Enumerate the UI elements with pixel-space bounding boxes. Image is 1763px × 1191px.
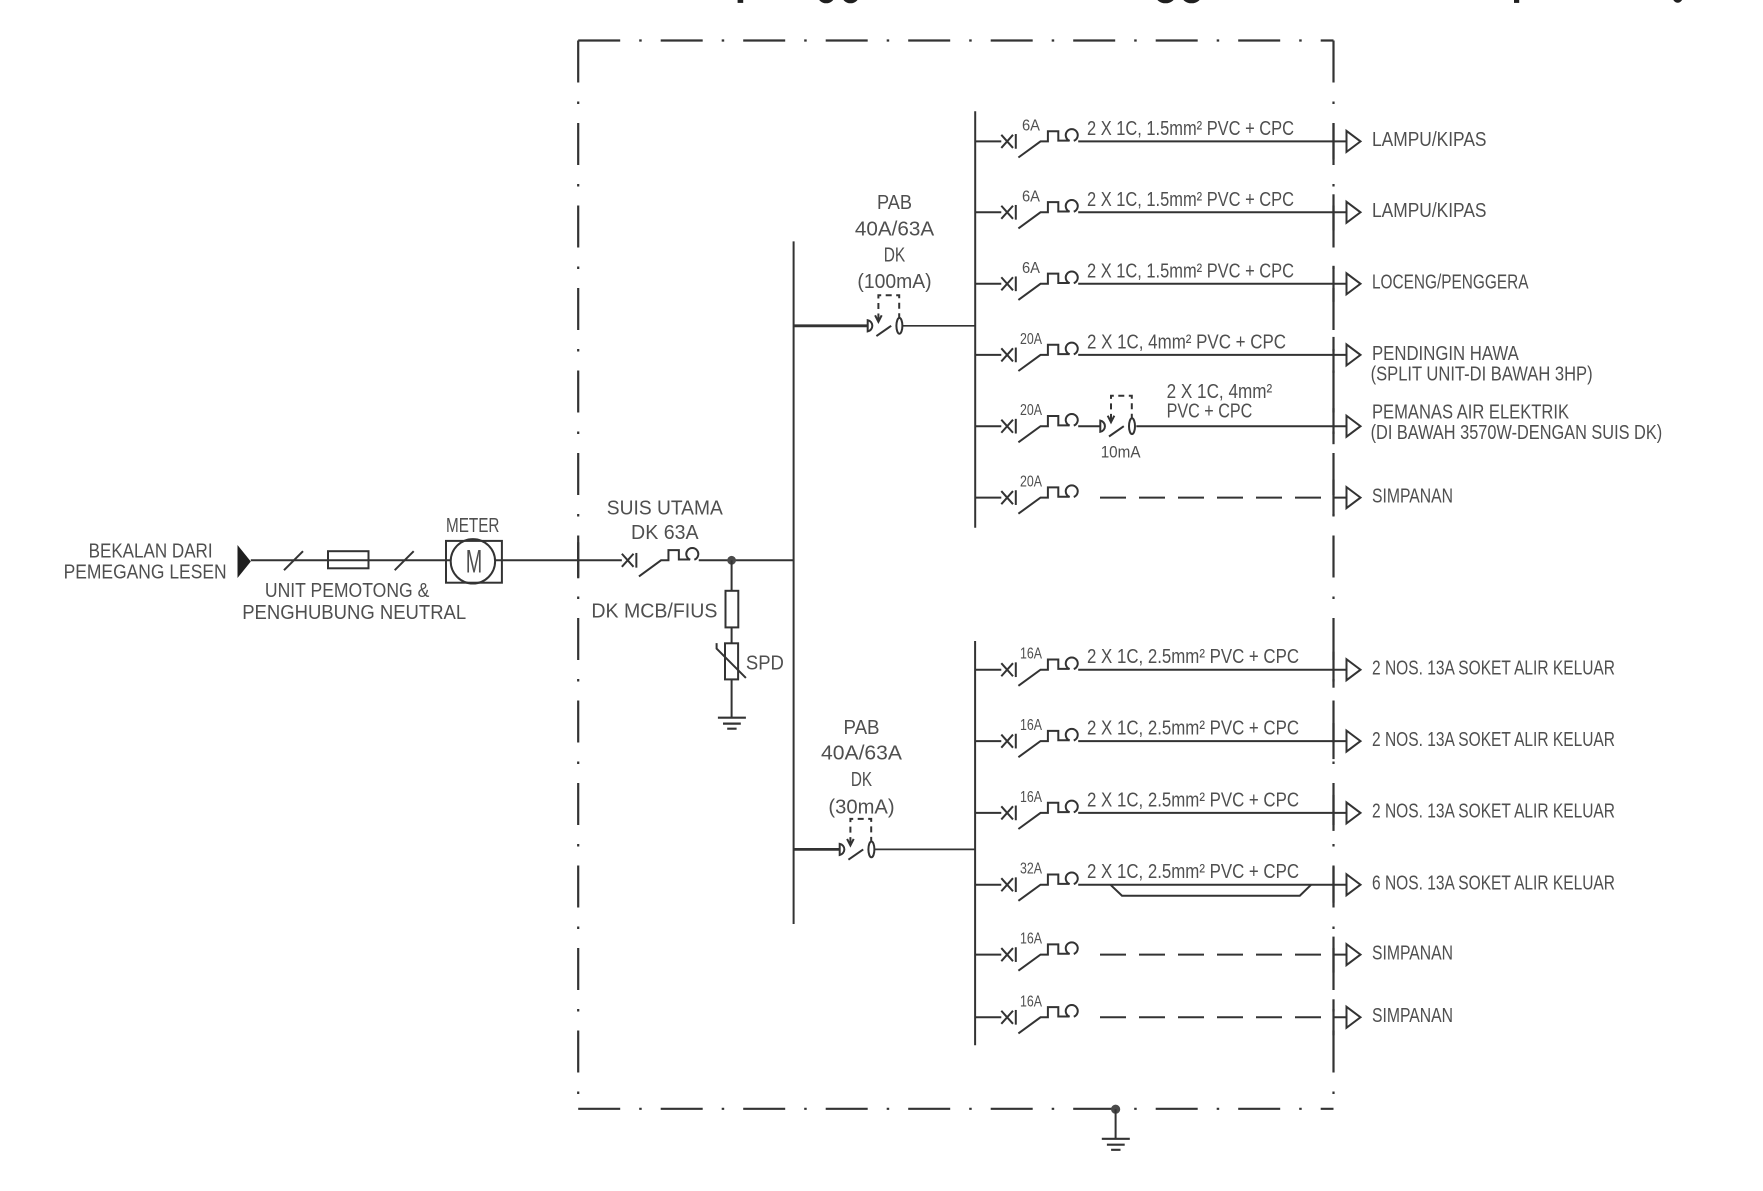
svg-text:2 X 1C, 1.5mm² PVC + CPC: 2 X 1C, 1.5mm² PVC + CPC (1087, 260, 1294, 282)
label DK MCB/FIUS (591, 600, 717, 622)
cable spec circuit 5 (two lines) (1167, 381, 1273, 423)
outgoing arrow circuit 11 (1347, 944, 1361, 965)
MCB 16A circuit 11 (975, 942, 1078, 970)
svg-text:20A: 20A (1020, 402, 1042, 419)
svg-text:40A/63A: 40A/63A (821, 743, 903, 765)
svg-text:SIMPANAN: SIMPANAN (1372, 485, 1453, 507)
svg-text:2 NOS. 13A SOKET ALIR KELUAR: 2 NOS. 13A SOKET ALIR KELUAR (1372, 729, 1615, 751)
label SUIS UTAMA DK 63A (607, 498, 724, 545)
cable spec circuit 3 (1087, 260, 1294, 282)
wire circuit 4 outgoing (1078, 354, 1346, 356)
wire circuit 2 outgoing (1078, 211, 1346, 213)
svg-text:DK: DK (884, 245, 906, 267)
cable spec circuit 4 (1087, 331, 1286, 353)
rating label 6A (1022, 260, 1040, 277)
MCB 6A circuit 3 (975, 272, 1078, 300)
svg-text:2 NOS. 13A SOKET ALIR KELUAR: 2 NOS. 13A SOKET ALIR KELUAR (1372, 658, 1615, 680)
earth junction node on frame (1111, 1105, 1120, 1114)
rating label 16A (1020, 717, 1042, 734)
wire circuit 5 to RCD (1078, 425, 1100, 427)
cable spec circuit 9 (1087, 789, 1299, 811)
svg-text:DK: DK (851, 769, 873, 791)
MCB 16A circuit 9 (975, 801, 1078, 829)
svg-text:SIMPANAN: SIMPANAN (1372, 942, 1453, 964)
svg-text:16A: 16A (1020, 789, 1042, 806)
outgoing arrow circuit 4 (1347, 344, 1361, 365)
frame tick segments at wire crossings (578, 123, 1333, 1035)
outgoing arrow circuit 12 (1347, 1007, 1361, 1028)
svg-text:10mA: 10mA (1101, 443, 1141, 462)
lower sub-bus (974, 641, 976, 1045)
svg-text:2 X 1C, 2.5mm² PVC + CPC: 2 X 1C, 2.5mm² PVC + CPC (1087, 789, 1299, 811)
svg-text:2 X 1C, 1.5mm² PVC + CPC: 2 X 1C, 1.5mm² PVC + CPC (1087, 189, 1294, 211)
load label circuit 7 (1372, 658, 1615, 680)
MCB 20A circuit 5 (975, 414, 1078, 442)
wire circuit 6 outgoing (dashed spare) (1100, 497, 1347, 499)
outgoing arrow circuit 6 (1347, 487, 1361, 508)
heading descender fragment gg (1156, 0, 1202, 3)
svg-text:40A/63A: 40A/63A (855, 218, 935, 240)
svg-text:LOCENG/PENGGERA: LOCENG/PENGGERA (1372, 272, 1529, 294)
RCCB PAB 100mA (868, 295, 903, 336)
load label circuit 9 (1372, 801, 1615, 823)
supply arrow (filled) (238, 545, 251, 578)
heading descender fragment gg (818, 0, 860, 3)
svg-text:6A: 6A (1022, 117, 1040, 134)
rating label 20A (1020, 402, 1042, 419)
svg-text:16A: 16A (1020, 646, 1042, 663)
svg-text:UNIT PEMOTONG &: UNIT PEMOTONG & (265, 580, 430, 602)
svg-text:20A: 20A (1020, 474, 1042, 491)
cable spec circuit 8 (1087, 718, 1299, 740)
wire busbar to RCCB U1 (794, 324, 868, 327)
meter M (446, 539, 502, 583)
MCB 16A circuit 8 (975, 729, 1078, 757)
cable spec circuit 10 (1087, 861, 1299, 883)
label METER (446, 515, 499, 537)
rating label 16A (1020, 646, 1042, 663)
consumer-unit boundary (dash-dot frame) (578, 41, 1333, 1109)
wire circuit 5 outgoing (1136, 425, 1346, 427)
ground (frame earth) (1102, 1139, 1130, 1150)
wire RCCB U1 to upper sub-bus (902, 325, 976, 327)
MCB 6A circuit 2 (975, 200, 1078, 228)
wire circuit 8 outgoing (1078, 740, 1346, 742)
ground (SPD) (718, 718, 746, 729)
outgoing arrow circuit 8 (1347, 731, 1361, 752)
svg-text:2 X 1C, 4mm² PVC + CPC: 2 X 1C, 4mm² PVC + CPC (1087, 331, 1286, 353)
svg-text:2 X 1C, 2.5mm² PVC + CPC: 2 X 1C, 2.5mm² PVC + CPC (1087, 861, 1299, 883)
label PAB 40A/63A DK (100mA) (855, 192, 935, 293)
isolation slash 2 (395, 551, 414, 570)
load label circuit 5 (1371, 402, 1663, 445)
outgoing arrow circuit 9 (1347, 802, 1361, 823)
svg-text:PENDINGIN HAWA: PENDINGIN HAWA (1372, 343, 1519, 365)
svg-text:16A: 16A (1020, 993, 1042, 1010)
svg-text:LAMPU/KIPAS: LAMPU/KIPAS (1372, 200, 1487, 222)
load label circuit 2 (1372, 200, 1487, 222)
rating label 20A (1020, 474, 1042, 491)
svg-text:2 X 1C, 2.5mm² PVC + CPC: 2 X 1C, 2.5mm² PVC + CPC (1087, 646, 1299, 668)
isolation slash 1 (284, 551, 303, 570)
wire SPD to ground (731, 679, 733, 717)
label BEKALAN DARI PEMEGANG LESEN (64, 541, 227, 584)
outgoing arrow circuit 10 (1347, 874, 1361, 895)
junction node (727, 556, 736, 565)
MCB 32A circuit 10 (975, 872, 1078, 900)
svg-text:PENGHUBUNG NEUTRAL: PENGHUBUNG NEUTRAL (242, 602, 466, 624)
MCB 6A circuit 1 (975, 129, 1078, 157)
heading descender fragment p (1514, 0, 1519, 3)
svg-text:6 NOS. 13A SOKET ALIR KELUAR: 6 NOS. 13A SOKET ALIR KELUAR (1372, 873, 1615, 895)
wire circuit 12 outgoing (dashed spare) (1100, 1016, 1347, 1018)
svg-text:20A: 20A (1020, 331, 1042, 348)
svg-text:2 NOS. 13A SOKET ALIR KELUAR: 2 NOS. 13A SOKET ALIR KELUAR (1372, 801, 1615, 823)
wire meter to main switch (495, 559, 622, 561)
svg-text:(100mA): (100mA) (857, 271, 931, 293)
wire incoming feed (251, 559, 451, 561)
svg-text:2 X 1C, 2.5mm² PVC + CPC: 2 X 1C, 2.5mm² PVC + CPC (1087, 718, 1299, 740)
meter letter M (466, 543, 483, 579)
outgoing arrow circuit 5 (1347, 416, 1361, 437)
wire circuit 10 outgoing (1078, 884, 1346, 886)
RCD 10mA (suis DK) (1100, 396, 1135, 437)
wire circuit 1 outgoing (1078, 140, 1346, 142)
label 10mA (1101, 443, 1141, 462)
wire fuse to SPD (731, 627, 733, 643)
rating label 6A (1022, 117, 1040, 134)
cable spec circuit 1 (1087, 118, 1294, 140)
svg-text:PAB: PAB (844, 717, 880, 739)
outgoing arrow circuit 3 (1347, 273, 1361, 294)
svg-text:PEMEGANG LESEN: PEMEGANG LESEN (64, 561, 227, 583)
load label circuit 1 (1372, 129, 1487, 151)
svg-text:LAMPU/KIPAS: LAMPU/KIPAS (1372, 129, 1487, 151)
label UNIT PEMOTONG & PENGHUBUNG NEUTRAL (242, 580, 466, 624)
main busbar (793, 241, 795, 924)
wire RCCB U2 to lower sub-bus (874, 848, 976, 850)
svg-text:BEKALAN DARI: BEKALAN DARI (89, 541, 213, 563)
wire main switch to busbar (699, 559, 794, 561)
svg-text:16A: 16A (1020, 931, 1042, 948)
load label circuit 12 (1372, 1005, 1453, 1027)
cable spec circuit 2 (1087, 189, 1294, 211)
svg-text:PEMANAS AIR ELEKTRIK: PEMANAS AIR ELEKTRIK (1372, 402, 1570, 424)
RCCB PAB 30mA (840, 819, 875, 860)
svg-text:M: M (466, 543, 483, 579)
load label circuit 4 (1371, 343, 1593, 385)
svg-text:SUIS UTAMA: SUIS UTAMA (607, 498, 724, 520)
heading descender fragment y (1672, 0, 1683, 3)
rating label 32A (1020, 861, 1042, 878)
fuse (unit pemotong) (328, 551, 369, 568)
wire circuit 11 outgoing (dashed spare) (1100, 954, 1347, 956)
svg-text:(SPLIT UNIT-DI BAWAH 3HP): (SPLIT UNIT-DI BAWAH 3HP) (1371, 363, 1593, 385)
heading descender fragment p (738, 0, 744, 3)
MCB 20A circuit 6 (975, 485, 1078, 513)
MCB 16A circuit 12 (975, 1005, 1078, 1033)
MCB 16A circuit 7 (975, 657, 1078, 685)
wire circuit 7 outgoing (1078, 669, 1346, 671)
load label circuit 6 (1372, 485, 1453, 507)
fuse DK MCB/FIUS (726, 591, 739, 628)
cable spec circuit 7 (1087, 646, 1299, 668)
svg-text:PVC + CPC: PVC + CPC (1167, 401, 1253, 423)
svg-text:DK MCB/FIUS: DK MCB/FIUS (591, 600, 717, 622)
svg-text:METER: METER (446, 515, 499, 537)
outgoing arrow circuit 7 (1347, 659, 1361, 680)
svg-text:16A: 16A (1020, 717, 1042, 734)
wire busbar to RCCB U2 (794, 848, 840, 851)
rating label 20A (1020, 331, 1042, 348)
load label circuit 8 (1372, 729, 1615, 751)
label PAB 40A/63A DK (30mA) (821, 717, 903, 819)
wire circuit 9 outgoing (1078, 812, 1346, 814)
rating label 6A (1022, 188, 1040, 205)
svg-text:DK 63A: DK 63A (631, 522, 699, 544)
wire junction to DK MCB/FIUS (731, 560, 733, 591)
svg-text:6A: 6A (1022, 188, 1040, 205)
wire circuit 3 outgoing (1078, 283, 1346, 285)
label SPD (746, 652, 784, 674)
rating label 16A (1020, 789, 1042, 806)
rating label 16A (1020, 931, 1042, 948)
ring circuit loop (1110, 885, 1311, 896)
load label circuit 10 (1372, 873, 1615, 895)
wire frame to earth (1115, 1109, 1117, 1139)
svg-text:32A: 32A (1020, 861, 1042, 878)
svg-text:(DI BAWAH 3570W-DENGAN SUIS DK: (DI BAWAH 3570W-DENGAN SUIS DK) (1371, 422, 1663, 444)
MCB 20A circuit 4 (975, 343, 1078, 371)
svg-text:SIMPANAN: SIMPANAN (1372, 1005, 1453, 1027)
load label circuit 3 (1372, 272, 1529, 294)
rating label 16A (1020, 993, 1042, 1010)
outgoing arrow circuit 2 (1347, 202, 1361, 223)
load label circuit 11 (1372, 942, 1453, 964)
SPD varistor (717, 643, 746, 679)
main switch SUIS UTAMA DK 63A (MCB) (622, 548, 698, 576)
svg-text:PAB: PAB (877, 192, 912, 214)
outgoing arrow circuit 1 (1347, 131, 1361, 152)
svg-text:SPD: SPD (746, 652, 784, 674)
upper sub-bus (974, 111, 976, 528)
svg-text:2 X 1C, 1.5mm² PVC + CPC: 2 X 1C, 1.5mm² PVC + CPC (1087, 118, 1294, 140)
svg-text:6A: 6A (1022, 260, 1040, 277)
svg-text:(30mA): (30mA) (828, 797, 894, 819)
